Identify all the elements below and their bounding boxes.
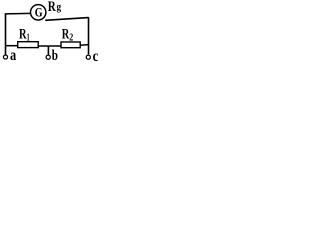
wire: left vertical (top-left corner down to terminal a) (5, 14, 7, 55)
label c (93, 48, 99, 65)
wire: top-left horizontal to galvanometer (5, 12, 31, 15)
svg-text:R: R (48, 0, 56, 15)
svg-text:g: g (57, 2, 62, 13)
label b (52, 48, 58, 64)
wire: galvanometer to top-right corner (slanted) (45, 18, 88, 21)
svg-text:a: a (10, 47, 16, 64)
label R1 (19, 26, 30, 43)
wire: R2 to right vertical (80, 44, 89, 47)
svg-text:R: R (19, 26, 27, 42)
svg-text:c: c (93, 48, 99, 65)
svg-text:b: b (52, 48, 58, 64)
wire: node b vertical drop (47, 46, 49, 55)
label Rg (48, 0, 61, 15)
terminal c (86, 55, 90, 59)
wire: R1 to R2 (through node b junction) (38, 45, 61, 47)
resistor R2 (61, 42, 80, 48)
wire: left vertical to R1 (5, 45, 18, 47)
label a (10, 47, 16, 64)
terminal b (46, 55, 50, 59)
galvanometer G (31, 5, 46, 20)
resistor R1 (18, 42, 39, 48)
svg-text:G: G (35, 5, 43, 20)
wire: right vertical (top-right corner down to terminal c) (88, 17, 90, 54)
label R2 (62, 26, 73, 43)
terminal a (3, 55, 7, 59)
